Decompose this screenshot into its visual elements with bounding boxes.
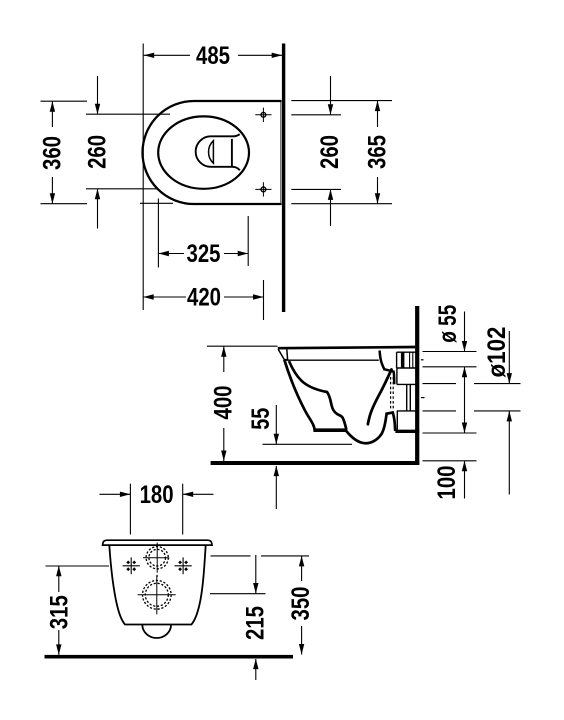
dimension 315 (front left) [46,566,110,655]
svg-text:ø 55: ø 55 [434,305,462,343]
foot inner thin line (side view) [316,428,346,430]
neck line (side view) [396,368,398,384]
dimension 260 (plan right, fixing holes) [291,76,341,226]
svg-text:350: 350 [287,587,315,621]
fixing hole top (plan) [255,108,271,122]
inner bowl line (side view) [289,361,346,430]
svg-text:485: 485 [196,42,230,70]
dimension 365 (plan right outer) [291,101,392,204]
drain outline (plan) [196,134,240,170]
seat top line (side view) [278,347,415,348]
dimension 325 (plan bottom inner) [158,199,248,268]
svg-text:420: 420 [187,284,221,312]
dimension 350 (front right, inlet centre) [211,556,310,655]
dimension 400 (side left) [207,346,278,461]
hidden outlet pipe dashed lines [391,377,394,411]
svg-text:325: 325 [187,240,221,268]
outer bowl profile (side view) [284,360,395,444]
svg-text:215: 215 [242,606,270,640]
inlet centre tick right of wall [421,359,424,361]
trap weir curve (side view) [368,370,392,425]
dimension 360 (plan left) [41,101,88,204]
dimension 180 (front top) [100,484,214,535]
dimension 420 (plan bottom outer) [143,280,263,320]
floor (front view) [45,655,294,659]
fixing mark right (front view) [175,557,192,574]
svg-text:180: 180 [140,481,174,509]
svg-text:360: 360 [38,136,66,170]
dimension 260 (plan left, fixing holes) [86,76,170,229]
dimension 485 (plan top) [144,53,283,58]
back wall inner curve (side view) [380,351,395,385]
dimension ø102 (side right) [507,331,512,495]
extension line front tangent (plan) [142,44,144,311]
svg-text:365: 365 [364,135,392,169]
side view right extension lines [423,352,521,461]
outlet centre tick right of wall [421,397,425,399]
dimension 55 (side, bowl bottom to floor) [263,405,353,509]
inlet circles (front view) [143,543,169,577]
wall (side view) [415,306,419,465]
floor (side view) [211,461,420,465]
fixing mark left (front view) [123,557,140,574]
bowl outer outline (plan) [143,101,282,204]
body (front view) [109,545,205,624]
svg-text:315: 315 [45,595,73,629]
seat rim inner oval (plan) [158,116,249,188]
inlet connector block (side view) [397,352,416,368]
dimension 215 (front, outlet centre) [210,555,266,680]
trap bulge (front view) [142,625,171,639]
drain hole D-shape (plan) [209,141,214,164]
outlet connector block (side view) [397,384,416,411]
outlet circles (front view) [138,575,176,614]
fixing hole bottom (plan) [255,182,271,196]
front lip (side view) [278,349,287,359]
svg-text:260: 260 [316,135,344,169]
svg-text:260: 260 [84,135,112,169]
svg-text:ø102: ø102 [483,327,511,378]
dimension chain ø55 / 100 (side right) [462,312,467,499]
svg-text:55: 55 [247,408,275,430]
svg-text:100: 100 [433,466,461,500]
rear bottom step line (side view) [396,411,398,430]
seat band (front view) [103,540,212,545]
wall (plan view) [282,44,285,313]
drain weir bar (plan) [231,139,233,167]
svg-text:400: 400 [209,386,237,420]
rim underside line (side view) [285,359,379,361]
